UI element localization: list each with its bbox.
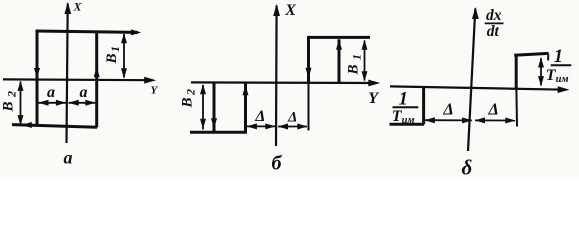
- right loop outer vertical (switch-down): [307, 36, 310, 83]
- svg-text:б: б: [272, 153, 283, 175]
- down arrowhead on left outer vertical: [211, 118, 217, 128]
- B1 dimension bottom arrowhead: [121, 68, 127, 78]
- svg-text:X: X: [73, 0, 83, 14]
- Y axis (horizontal) diagram b: [191, 81, 377, 84]
- B2 dimension line diagram a: [20, 82, 22, 125]
- svg-text:Y: Y: [151, 85, 159, 97]
- B2 dimension top arrowhead: [18, 81, 24, 91]
- svg-text:B1: B1: [104, 46, 122, 65]
- hysteresis loop bottom line (-B2 level): [12, 125, 97, 128]
- B1 label diagram a: [104, 46, 122, 65]
- svg-text:1: 1: [554, 47, 563, 67]
- up arrowhead on left inner vertical: [243, 85, 249, 95]
- up arrowhead on right edge: [94, 67, 100, 77]
- bottom level line (-B2) diagram b: [190, 131, 247, 134]
- delta dimension (right) diagram v: [475, 119, 515, 121]
- delta dimension (right) diagram b: [278, 126, 307, 128]
- svg-text:Tим: Tим: [392, 108, 415, 126]
- right outer vertical dimension extension below axis: [308, 83, 310, 131]
- B1 dimension top arrowhead: [121, 33, 127, 43]
- hysteresis loop top line (+B1 level): [36, 31, 138, 32]
- a dimension double arrow (right of origin): [69, 102, 96, 104]
- B1 dimension line diagram b: [364, 41, 366, 81]
- Y axis arrowhead (right) diagram b: [368, 80, 380, 87]
- left step vertical diagram v: [422, 87, 425, 125]
- B2 label diagram a: [1, 91, 19, 113]
- up arrowhead on right inner vertical: [336, 39, 342, 49]
- hysteresis loop left edge: [36, 30, 39, 125]
- svg-text:δ: δ: [462, 156, 473, 179]
- X axis (vertical) diagram b: [275, 6, 278, 147]
- right loop inner vertical (switch-up): [338, 39, 341, 82]
- Y axis arrowhead (right) diagram v: [558, 86, 570, 93]
- a dimension double arrow (left of origin): [39, 102, 67, 104]
- B1 dimension line diagram a: [123, 34, 125, 78]
- svg-text:Δ: Δ: [254, 108, 265, 125]
- svg-text:а: а: [64, 148, 73, 168]
- svg-text:B2: B2: [180, 89, 198, 109]
- B1 label diagram b: [346, 54, 364, 76]
- right fraction bar: [551, 64, 572, 66]
- top line right end tick: [547, 53, 549, 60]
- Y axis (horizontal) diagram v: [390, 86, 566, 89]
- delta dimension (left) diagram v: [425, 119, 472, 121]
- left loop outer vertical (switch-down): [213, 83, 216, 133]
- svg-text:Δ: Δ: [442, 100, 453, 119]
- B1 dimension bottom arrowhead diagram b: [362, 71, 368, 81]
- X axis arrowhead (up) diagram b: [273, 4, 280, 16]
- down arrowhead on left edge: [34, 68, 40, 78]
- svg-text:B1: B1: [346, 54, 364, 76]
- svg-text:а: а: [80, 84, 88, 101]
- B2 label diagram b: [180, 89, 198, 109]
- Y axis arrowhead (right) diagram a: [144, 77, 156, 84]
- X axis arrowhead (up) diagram v: [472, 7, 479, 19]
- B2 dimension line diagram b: [202, 85, 204, 130]
- top level line (+B1) diagram b: [307, 36, 370, 39]
- X axis (vertical) diagram a: [67, 4, 68, 144]
- svg-text:а: а: [47, 84, 55, 101]
- left loop inner vertical (switch-up): [244, 83, 247, 133]
- X axis arrowhead (up) diagram a: [64, 2, 71, 14]
- X axis (vertical) diagram v: [468, 9, 475, 152]
- lower level line diagram v: [390, 123, 425, 126]
- svg-text:dx: dx: [486, 7, 502, 24]
- svg-text:X: X: [284, 2, 296, 19]
- Y axis (horizontal) diagram a: [3, 78, 153, 81]
- svg-text:B2: B2: [1, 91, 19, 113]
- svg-text:Δ: Δ: [287, 109, 297, 125]
- B2 dimension bottom arrowhead: [18, 115, 24, 125]
- right step vertical diagram v: [515, 55, 518, 90]
- top line right arrowhead: [131, 29, 141, 35]
- bottom line left direction arrowhead: [22, 122, 32, 128]
- hysteresis loop right edge: [95, 31, 98, 127]
- 1/Tim dimension line (right): [540, 58, 542, 85]
- B2 dimension top arrowhead diagram b: [200, 84, 206, 94]
- left fraction bar: [393, 106, 419, 108]
- B1 dimension top arrowhead diagram b: [362, 40, 368, 50]
- svg-text:Tим: Tим: [546, 67, 569, 85]
- svg-text:Y: Y: [368, 90, 379, 107]
- B2 dimension bottom arrowhead diagram b: [200, 119, 206, 129]
- svg-text:dt: dt: [487, 23, 500, 40]
- svg-text:Δ: Δ: [488, 100, 499, 119]
- 1/Tim dimension top arrowhead: [538, 57, 544, 67]
- delta dimension (left) diagram b: [247, 125, 275, 127]
- dx/dt fraction bar: [485, 22, 504, 24]
- right step vertical extension below axis: [515, 89, 518, 127]
- top level line diagram v: [514, 53, 548, 55]
- 1/Tim dimension bottom arrowhead: [538, 76, 544, 86]
- down arrowhead on right outer vertical: [306, 68, 312, 78]
